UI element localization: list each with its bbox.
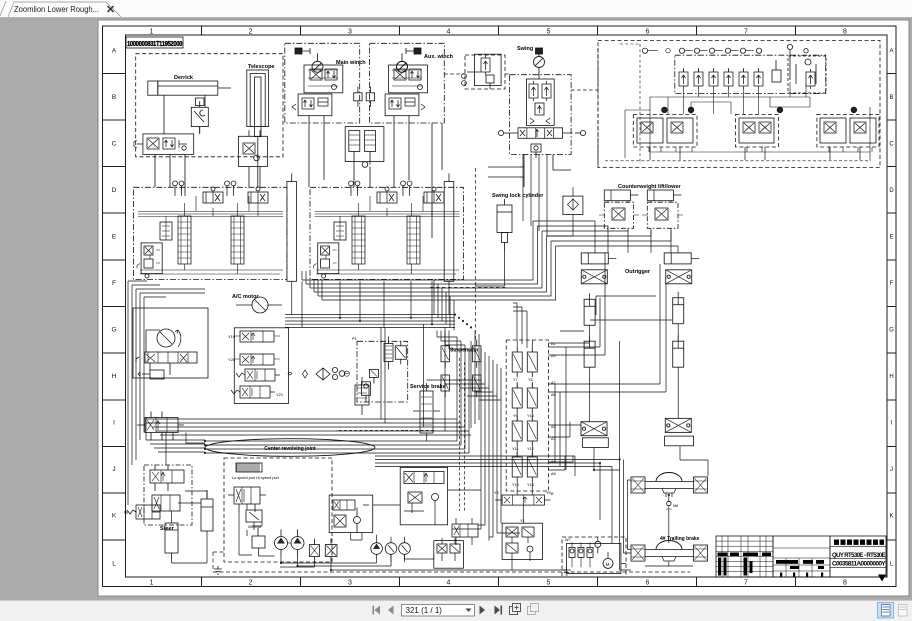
wires derrick manifold to banks [155,95,205,196]
svg-text:5: 5 [547,580,551,587]
swing circuit box [510,75,572,155]
pilot check valves between winches [354,87,375,107]
bank R section 2 spool [407,216,420,264]
bank R rails [315,196,460,274]
steer directional valve [150,465,184,491]
svg-text:4: 4 [447,580,451,587]
outrigger jack cylinder R2 [673,335,684,367]
bank L section 1 pilot gauges [173,181,184,196]
P1 solenoid pair [395,341,406,365]
corner sheet mark [878,575,886,582]
outrigger jack cylinder L2 [584,335,595,367]
svg-text:J: J [890,467,893,473]
svg-text:4: 4 [447,29,451,36]
trailing axle assembly [631,541,708,562]
P1 relief valve [369,369,378,383]
svg-text:B: B [112,94,116,101]
svg-text:L: L [112,561,116,568]
manifold group 3 [817,107,879,147]
derrick luffing cylinder [148,81,231,95]
svg-text:H: H [889,374,893,380]
svg-text:G: G [111,327,116,334]
left letter strip dividers [103,73,126,540]
svg-text:K: K [112,513,117,520]
svg-text:A: A [112,48,117,55]
wires bottom distribution [213,490,693,572]
svg-text:Steer: Steer [160,526,175,532]
swing valve assembly inner [526,79,554,125]
svg-text:C0035811A0000000Y: C0035811A0000000Y [832,562,886,568]
pilot valve stack box [234,328,288,404]
pilot pump trio [371,535,411,563]
svg-text:8: 8 [843,29,847,36]
svg-text:7: 7 [744,29,748,36]
main valve bank right box [310,187,463,279]
bank R inlet valves [314,243,339,278]
service brake valve [413,383,440,441]
solenoid pair Y9 Y10 [512,383,537,418]
svg-text:J: J [112,466,115,473]
svg-text:6: 6 [646,580,650,587]
center revolving joint ellipse [205,439,375,457]
emergency pump unit dashed enclosure [562,537,626,577]
aux winch valve assembly [389,65,428,93]
svg-text:C: C [889,142,894,148]
part number label block [126,37,183,48]
riser duct between banks [287,174,297,282]
priority valve left margin [137,412,184,441]
svg-text:Y13: Y13 [512,483,519,487]
title block text marks [718,553,825,577]
svg-text:Swing: Swing [517,46,533,52]
top zone numbers [150,29,848,36]
manifold accumulator group [788,56,826,93]
steering cylinder pair lower [165,523,178,559]
tank symbol pump unit [563,567,571,575]
transmission dashed box [224,458,332,562]
svg-text:Y21: Y21 [276,392,284,397]
svg-text:Swing lock cylinder: Swing lock cylinder [492,193,544,199]
swing motor [534,48,545,68]
svg-text:6: 6 [646,29,650,36]
stack valve Y20 [228,354,280,365]
main winch motor [295,48,323,72]
main pump 1 [275,530,288,558]
trailer brake valve group [434,538,464,568]
bank R section 1 pilot gauges [349,181,360,196]
stack valve W2 [231,386,284,398]
bank L inlet valves [137,243,162,278]
title block company name row [834,540,884,545]
aux winch circuit box [369,43,453,123]
svg-text:G: G [889,328,894,334]
outrigger jack cylinder R1 [673,292,684,324]
axle brake bleeder [666,501,678,511]
accumulator charge valve mid [355,377,369,415]
P1 reducing valve [362,382,371,403]
wires steer and transmission [152,490,275,563]
filter diamond assembly [303,367,350,380]
pilot supply group P1 box [352,336,408,402]
svg-text:B: B [889,95,893,101]
svg-text:W7: W7 [565,538,571,542]
svg-text:Telescope: Telescope [248,64,275,70]
bottom number strip dividers [202,577,796,587]
wire bundle left of Y-bank [427,348,521,541]
hand pump group [452,518,478,545]
steering cylinder pair upper [201,490,213,531]
toolbar next-page button [480,606,486,615]
pump unit relief [138,370,164,379]
manifold group 1 outriggers front [633,107,697,147]
A/C motor circle [236,297,282,313]
aux winch motor [397,48,422,72]
svg-text:K: K [889,514,893,520]
toolbar page combo box [402,605,475,617]
riser duct right of bank R [444,174,454,282]
svg-text:5: 5 [547,29,551,36]
left zone letters [111,48,116,568]
drawing frame inner border [126,35,888,577]
svg-text:Y8: Y8 [528,378,533,382]
svg-text:Derrick: Derrick [174,75,194,81]
pilot control assembly lower [502,519,542,561]
svg-text:H: H [112,373,117,380]
P1 sequence valve [384,337,393,370]
left edge tab stub [0,1,6,16]
svg-text:M: M [606,562,610,567]
svg-text:A/C motor: A/C motor [232,294,259,300]
outrigger beam cylinder left [581,253,616,264]
right letter strip dividers [887,73,896,540]
toolbar icon: previous view [510,604,521,615]
counterweight cylinder 1 [604,190,638,201]
svg-text:E: E [889,235,893,241]
svg-text:1000000831T11952000: 1000000831T11952000 [127,39,182,48]
wire bundle mid rails down to revolving joint [302,221,678,470]
browser tab [8,2,121,17]
page layout button (inactive) [899,605,908,617]
outrigger pilot xbox L [581,422,608,448]
swing directional valve [498,128,585,139]
main winch circuit box [285,43,366,123]
steering axle assembly [631,473,708,498]
main pump 2 [288,530,305,558]
svg-text:2: 2 [249,580,253,587]
outrigger lock valve right [666,270,692,284]
svg-text:2: 2 [249,29,253,36]
toolbar prev-page button [388,606,394,615]
svg-text:Y14: Y14 [527,483,534,487]
svg-text:Y12: Y12 [527,447,534,451]
svg-text:I: I [113,420,115,427]
svg-text:Y5: Y5 [546,491,551,495]
wires telescope to banks [249,145,260,187]
brake charge valve block [400,468,447,525]
tab bar background [0,0,912,18]
dashed pilot boundary horizontal [430,287,506,289]
svg-text:265048: 265048 [248,524,262,529]
transmission small box [252,528,265,548]
emergency pump unit [565,538,621,574]
svg-text:C: C [112,141,117,148]
steer amplifier valve [152,495,180,511]
wires swing to lower [488,68,571,188]
tank symbol transmission [214,566,222,574]
svg-text:1: 1 [150,580,154,587]
port labels A1-A8 [551,342,556,496]
wires swing pilot risers [475,154,573,286]
svg-text:Y20: Y20 [228,357,236,362]
bank L section 2 spool [231,216,244,264]
derrick balance valve [191,98,208,134]
svg-text:D: D [889,188,894,194]
stack valve Y19a [228,331,280,342]
bank R section 1 pilot valve [377,187,397,203]
svg-text:Lo speed port Hi speed port: Lo speed port Hi speed port [232,476,280,480]
manifold outlet wires to counterweight [650,147,860,160]
steer circuit box [144,465,192,532]
outrigger beam cylinder right [664,253,699,264]
svg-text:P1: P1 [352,336,358,341]
svg-text:Aux. winch: Aux. winch [424,54,454,60]
accumulator charging block [329,495,373,532]
suspension pilot dashed lines [336,358,465,511]
bank L section 2 pilot valve [248,187,268,203]
junction dots [204,314,670,572]
filter box pair 1 [310,539,320,563]
pilot filter box [563,187,583,222]
svg-text:7: 7 [744,580,748,587]
svg-text:D: D [112,187,117,194]
telescope valve block [238,130,267,172]
swing lock cylinder [497,199,512,251]
svg-text:Zoomlion Lower Rough...: Zoomlion Lower Rough... [14,4,99,14]
telescope cylinder [247,70,269,145]
svg-text:Counterweight lift/lower: Counterweight lift/lower [618,184,681,190]
manifold inner dash-dot box [675,55,826,93]
svg-text:A: A [889,49,893,55]
transmission shift valve [228,487,266,512]
main control manifold dashed box [598,40,880,167]
outrigger lock valve left [581,270,607,284]
wire bundle left rails above joint [146,419,471,453]
svg-text:A5: A5 [551,354,556,358]
svg-text:Y19: Y19 [228,334,236,339]
solenoid pilot circles row [642,44,808,53]
bank R section 1 spool [352,216,365,264]
bottom zone numbers [150,580,848,587]
transmission regulator [246,510,262,530]
svg-text:321 (1 / 1): 321 (1 / 1) [406,606,443,615]
solenoid pair Y13 Y14 [512,452,537,487]
suspension valve Y18 [473,375,482,397]
right zone letters [889,49,894,568]
svg-text:3: 3 [348,29,352,36]
steer solenoid W [124,505,160,519]
svg-text:3: 3 [348,580,352,587]
outrigger jack cylinder L1 [584,293,595,325]
manifold internal wires [605,44,872,164]
winch balance valve block [345,127,384,168]
wire bundle Y-bank to outriggers [512,253,666,570]
wire bundle left column [128,281,205,505]
svg-text:M6: M6 [673,504,678,508]
toolbar background [0,600,912,621]
bank L section 1 compensator [160,222,172,240]
pressure reducing valve row [679,50,815,89]
main winch valve assembly [304,65,343,93]
swing shuttle valve [531,144,541,158]
manifold group 2 [736,107,783,147]
svg-text:A8: A8 [551,472,556,476]
toolbar icon: next view (disabled) [528,604,539,615]
dashed pilot boundary vertical [475,168,477,340]
bank L section 1 pilot valve [203,187,223,203]
main winch brake valve [292,94,332,116]
bank L section 2 pilot gauges [225,181,236,196]
filter box pair 2 [325,539,337,563]
bank R section 1 compensator [334,222,346,240]
bank R section 2 pilot gauges [401,181,412,196]
bank R section 2 pilot valve [424,187,444,203]
bank L section 1 spool [178,216,191,264]
derrick control manifold [134,134,194,155]
toolbar last-page button [495,606,503,615]
stack valve W1 [236,369,292,381]
svg-text:Y7: Y7 [513,378,518,382]
svg-text:8: 8 [843,580,847,587]
wire bundle banks to mid rails [285,281,455,327]
svg-text:QUY RT530E - RT530E: QUY RT530E - RT530E [832,553,886,559]
svg-text:Y4: Y4 [494,491,499,495]
dashed pilot lines swing to manifold [444,48,598,168]
svg-text:1: 1 [150,29,154,36]
svg-text:F: F [112,280,116,287]
pilot supply block left of swing [462,54,505,89]
outrigger solenoid bank box [506,340,548,491]
solenoid pair Y11 Y12 [512,416,537,451]
drawing frame outer border [103,26,897,587]
counterweight cylinder 2 [647,190,681,201]
svg-text:Service brake: Service brake [410,384,446,390]
top number strip dividers [202,26,796,35]
counterweight valve block 1 [599,200,639,232]
title block table [716,536,886,577]
counterweight valve block 2 [642,200,683,232]
swash pump unit box left [133,308,208,378]
svg-text:E: E [112,234,117,241]
wires winches to banks [309,116,442,238]
main valve bank left box [133,187,287,279]
svg-text:A1: A1 [551,342,556,346]
dashed boundary derrick/telescope circuit [136,54,283,157]
suspension valve Y17 [473,340,482,368]
wire bundle joint to axles [375,296,708,570]
svg-text:Y10: Y10 [527,414,534,418]
suspension valve Y16 [441,375,450,397]
sidebar toggle button active blue [878,603,894,619]
transmission plate label [232,463,280,480]
outrigger pilot xbox R [665,418,694,445]
outrigger selector valve [494,491,551,505]
solenoid pair Y7 Y8 [512,347,537,382]
suspension valve Y15 [441,340,450,368]
bank L rails [138,196,283,274]
svg-text:Y1: Y1 [520,519,525,523]
svg-text:F: F [890,281,894,287]
svg-text:Outrigger: Outrigger [625,269,651,275]
aux winch brake valve [385,94,425,116]
toolbar first-page button [373,606,381,615]
